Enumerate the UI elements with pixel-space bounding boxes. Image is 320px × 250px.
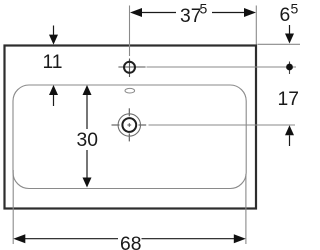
svg-text:11: 11 — [43, 52, 63, 73]
svg-text:30: 30 — [77, 130, 98, 151]
drain centerline — [149, 124, 296, 126]
inner basin rim — [13, 85, 246, 189]
svg-text:37: 37 — [180, 6, 201, 27]
dim 37.5 right arrow — [244, 8, 256, 17]
extension line right (68 dim) — [245, 174, 247, 244]
faucet hole — [124, 62, 135, 73]
dim 17 up arrow — [285, 125, 294, 135]
svg-text:68: 68 — [120, 234, 141, 250]
svg-text:5: 5 — [200, 1, 208, 17]
drain crosshair bottom tick — [128, 133, 130, 141]
drain center cross — [127, 124, 131, 126]
drain crosshair right tick — [139, 124, 147, 126]
drain crosshair left tick — [112, 124, 120, 126]
dim 68 left arrow — [13, 234, 25, 243]
dim 68 right arrow — [234, 234, 246, 243]
dim 68 line — [24, 238, 118, 240]
svg-text:17: 17 — [278, 89, 299, 110]
drain crosshair top tick — [128, 108, 130, 116]
dim 6.5 down arrow — [289, 25, 291, 35]
extension line faucet vertical — [129, 6, 131, 57]
drain inner circle — [122, 118, 136, 132]
washbasin outer edge — [5, 46, 257, 209]
svg-text:6: 6 — [280, 5, 291, 26]
dim 11 down arrow — [53, 26, 55, 36]
dim 11 up arrow — [49, 85, 58, 95]
svg-text:5: 5 — [291, 1, 299, 17]
faucet crosshair vertical tick — [129, 59, 131, 78]
dim 37.5 left arrow — [130, 8, 142, 17]
extension line right edge up — [255, 6, 257, 45]
top edge extension right — [258, 43, 301, 45]
faucet centerline — [147, 66, 297, 68]
overflow slot — [125, 88, 135, 93]
dim 30 down arrow — [86, 150, 88, 178]
faucet crosshair horizontal tick — [118, 66, 145, 68]
dim 30 up arrow — [83, 85, 92, 95]
dim 37.5 line — [141, 12, 176, 14]
dim 6.5/17 dot terminator — [289, 62, 291, 75]
extension line left (68 dim) — [12, 170, 14, 244]
drain outer circle — [118, 114, 140, 136]
